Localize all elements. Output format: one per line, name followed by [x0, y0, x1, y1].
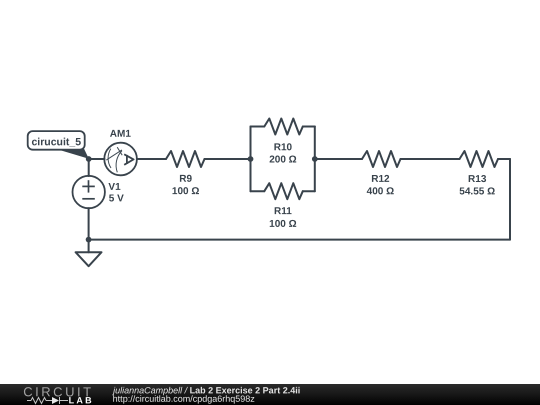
svg-text:cirucuit_5: cirucuit_5	[31, 136, 81, 148]
ammeter face arcs and needle	[106, 147, 122, 172]
wire node A to V1 top	[88, 159, 90, 176]
junction node C (parallel right)	[312, 156, 318, 162]
wire R12 to R13	[401, 158, 460, 160]
svg-text:100 Ω: 100 Ω	[172, 186, 199, 197]
resistor R10	[264, 119, 303, 135]
right vertical wire	[509, 159, 511, 240]
logo resistor zigzag	[27, 397, 68, 404]
logo diode triangle	[52, 397, 59, 404]
junction node B (parallel left)	[248, 156, 254, 162]
callout pointer	[55, 149, 89, 159]
svg-text:http://circuitlab.com/cpdga6rh: http://circuitlab.com/cpdga6rhq598z	[113, 394, 256, 404]
wire node A to ammeter	[89, 158, 105, 160]
resistor R13	[460, 151, 499, 167]
logo diode cathode bar	[59, 397, 61, 404]
ground stub wire	[88, 240, 90, 253]
svg-text:54.55 Ω: 54.55 Ω	[459, 186, 495, 197]
svg-text:R11: R11	[274, 206, 292, 217]
resistor R9	[166, 151, 205, 167]
wire node C to R12	[315, 158, 362, 160]
junction node D (ground)	[86, 237, 92, 243]
parallel box right vertical wire	[314, 127, 316, 192]
bottom branch wire right	[303, 190, 315, 192]
svg-text:R13: R13	[468, 174, 487, 185]
resistor R11	[264, 183, 303, 199]
bottom return wire	[89, 239, 510, 241]
wire V1 bottom to ground node	[88, 208, 90, 239]
svg-text:LAB: LAB	[69, 395, 94, 405]
svg-text:AM1: AM1	[110, 129, 132, 140]
wire R13 to right edge	[498, 158, 510, 160]
svg-text:200 Ω: 200 Ω	[269, 154, 296, 165]
voltage source V1 circle	[73, 176, 105, 208]
svg-text:R10: R10	[274, 142, 293, 153]
labels	[108, 129, 495, 230]
svg-text:5 V: 5 V	[109, 193, 124, 204]
wire R9 to node B	[205, 158, 251, 160]
svg-text:R12: R12	[371, 174, 390, 185]
resistor R12	[362, 151, 401, 167]
ammeter A arrow glyph	[124, 154, 133, 165]
junction node A (callout node)	[86, 156, 92, 162]
callout box cirucuit_5	[28, 131, 85, 150]
V1 minus sign	[82, 198, 95, 200]
top branch wire right	[303, 126, 315, 128]
svg-text:V1: V1	[108, 182, 121, 193]
svg-text:100 Ω: 100 Ω	[269, 219, 296, 230]
parallel box left vertical wire	[250, 127, 252, 192]
wire ammeter to R9	[137, 158, 166, 160]
ground symbol	[76, 252, 102, 266]
top branch wire left	[251, 126, 265, 128]
bottom branch wire left	[251, 190, 265, 192]
ammeter AM1 circle	[104, 143, 137, 176]
footer bar	[0, 384, 540, 405]
svg-text:400 Ω: 400 Ω	[367, 186, 394, 197]
svg-text:R9: R9	[179, 174, 192, 185]
V1 plus sign	[82, 180, 95, 199]
